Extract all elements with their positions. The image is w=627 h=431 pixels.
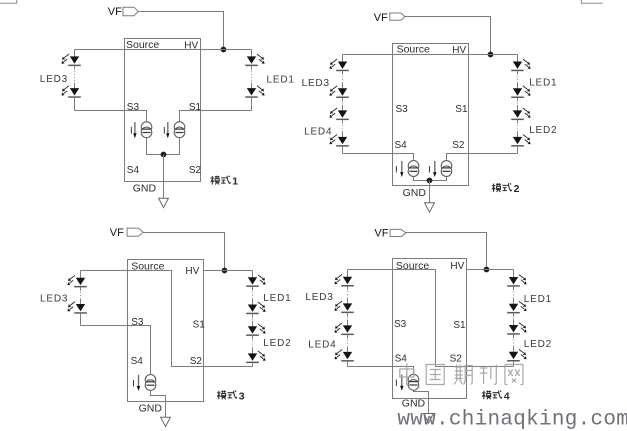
wire (dotted) [252,314,254,317]
wire VF to HV node (mode 4) [406,233,487,270]
pin label GND (mode 1) [133,182,157,194]
svg-text:S4: S4 [127,165,140,176]
wire (dotted) [513,287,515,290]
LED diode [329,59,348,71]
driver IC U3 body (mode 3) [128,260,204,402]
wire internal route to S2 (mode 3) [172,271,253,367]
node HV junction (mode 3) [222,268,228,274]
wire current sources to common node (mode 1) [147,138,180,155]
caption 模式1 [211,176,239,188]
wire HV rail (mode 2) [343,54,518,56]
svg-text:VF: VF [108,6,122,18]
watermark glyph 国 [426,365,444,385]
LED diode [507,275,526,287]
watermark URL www.chinaqking.com [397,409,627,431]
wire S3 to current source (mode 3) [81,326,151,375]
LED diode [246,324,265,336]
wire S1 to current source (mode 1) [180,111,252,122]
LED diode [329,108,348,120]
ground symbol (mode 4) [424,414,434,423]
svg-text:GND: GND [402,398,426,410]
watermark glyph 期 [454,365,472,385]
svg-text:LED1: LED1 [529,77,557,88]
LED diode [67,275,86,287]
caption 模式3 [217,391,245,403]
svg-text:Source: Source [126,39,159,51]
LED diode [507,323,526,335]
label LED3 (mode 4) [305,292,333,303]
driver IC U1 body (mode 1) [125,39,201,182]
label LED4 (mode 4) [308,340,336,351]
wire (dotted) [342,71,344,74]
pin label S1 (mode 3) [193,320,206,331]
svg-text:LED3: LED3 [40,293,68,304]
wire to ground (mode 2) [429,181,431,203]
LED diode [245,54,264,66]
svg-text:HV: HV [184,40,198,51]
svg-text:S1: S1 [455,104,468,115]
node HV junction (mode 4) [484,267,490,273]
wire (dotted) [347,335,349,338]
wire (dotted) [342,98,344,101]
wire [513,362,515,367]
svg-text:LED3: LED3 [40,74,68,85]
wire [517,147,519,154]
svg-text:VF: VF [374,227,388,239]
current source I2 (mode 2) [441,161,452,177]
label LED4 (mode 2) [304,126,332,137]
pin label S4 (mode 3) [131,356,144,367]
wire HV to LED string (mode 3) [204,270,253,272]
LED diode [334,274,353,286]
LED diode [334,301,353,313]
svg-text:I: I [132,378,135,389]
svg-text:LED2: LED2 [263,338,291,349]
wire [517,55,519,63]
svg-text:2: 2 [514,183,520,195]
svg-text:GND: GND [133,182,157,194]
svg-text:I: I [130,126,133,137]
current source I2 (mode 1) [174,122,185,138]
svg-text:HV: HV [185,266,199,277]
pin label Source (mode 4) [396,260,429,272]
current arrow I (mode 1 right) [163,122,170,138]
svg-text:3: 3 [239,391,245,403]
svg-text:S4: S4 [131,356,144,367]
LED diode [334,323,353,335]
net label VF (mode 4) [374,227,406,239]
LED diode [67,302,86,314]
svg-text:S1: S1 [189,102,202,113]
wire LED4 bottom to current source (mode 4) [348,367,414,375]
net label VF (mode 2) [374,12,405,24]
wire [251,98,253,111]
wire [252,271,254,279]
svg-text:S2: S2 [189,165,202,176]
caption 模式2 [492,183,520,195]
stray frame corner top-left [0,0,17,3]
watermark glyph 中 [400,364,414,386]
LED diode [246,302,265,314]
wire HV to LED string (mode 4) [467,269,514,271]
svg-text:S1: S1 [453,320,466,331]
label LED1 (mode 2) [529,77,557,88]
pin label S3 (mode 1) [127,102,140,113]
pin label GND (mode 3) [139,403,163,415]
svg-text:I: I [395,164,398,175]
current arrow I (mode 2 left) [395,161,403,177]
svg-text:S3: S3 [131,317,144,328]
label LED1 (mode 1) [267,75,295,86]
node HV junction (mode 1) [221,47,227,53]
pin label HV (mode 3) [185,266,199,277]
svg-text:S4: S4 [395,353,408,364]
svg-text:HV: HV [452,45,466,56]
ground symbol (mode 2) [425,203,435,212]
wire [74,98,76,111]
wire current source to ground (mode 4) [414,390,429,413]
LED diode [511,86,530,98]
ground symbol (mode 1) [159,198,169,207]
current source I1 (mode 2) [408,161,419,177]
svg-text:S3: S3 [127,102,140,113]
svg-text:S2: S2 [452,140,465,151]
LED diode [246,275,265,287]
wire S4 to current source (mode 2) [343,154,414,161]
wire VF to HV node (mode 2) [405,17,491,55]
current source I1 (mode 4) [408,374,419,390]
svg-text:LED2: LED2 [529,125,557,136]
pin label S2 (mode 2) [452,140,465,151]
pin label S2 (mode 4) [450,353,463,364]
wire [252,363,254,366]
pin label Source (mode 2) [397,44,430,56]
svg-text:1: 1 [232,176,238,188]
wire VF to HV node (mode 1) [138,12,223,50]
wire [80,271,82,279]
pin label HV (mode 4) [450,261,464,272]
net label VF (mode 3) [110,227,144,239]
pin label S3 (mode 3) [131,317,144,328]
LED diode [245,86,264,98]
pin label S3 (mode 4) [394,319,407,330]
LED diode [511,59,530,71]
node common GND (mode 1) [161,152,167,158]
svg-text:LED1: LED1 [263,293,291,304]
pin label HV (mode 1) [184,40,198,51]
wire (dotted) [252,336,254,339]
pin label GND (mode 2) [403,187,427,199]
svg-text:Source: Source [397,44,430,56]
svg-text:LED3: LED3 [305,292,333,303]
pin label GND (mode 4) [402,398,426,410]
svg-text:S2: S2 [190,356,203,367]
svg-text:I: I [428,164,431,175]
svg-text:S2: S2 [450,353,463,364]
pin label S1 (mode 2) [455,104,468,115]
wire [347,362,349,367]
pin label S3 (mode 2) [396,104,409,115]
svg-text:LED4: LED4 [304,126,332,137]
current source I1 (mode 3) [145,375,156,391]
svg-text:S4: S4 [395,140,408,151]
wire (dotted) [342,120,344,123]
svg-text:GND: GND [139,403,163,415]
svg-text:LED1: LED1 [524,294,552,305]
label LED1 (mode 4) [524,294,552,305]
LED diode [246,351,265,363]
driver IC U4 body (mode 4) [393,259,467,399]
wire LED3 top to internal route (mode 3) [81,270,172,272]
current arrow I (mode 1 left) [130,122,137,138]
svg-text:LED3: LED3 [302,78,330,89]
pin label Source (mode 1) [126,39,159,51]
LED diode [61,54,80,66]
svg-text:4: 4 [504,391,510,403]
svg-text:Source: Source [396,260,429,272]
wire (dotted) [513,313,515,316]
wire [342,147,344,154]
wire S3 to current source (mode 1) [75,111,147,122]
LED diode [61,86,80,98]
label LED2 (mode 4) [524,339,552,350]
pin label S4 (mode 4) [395,353,408,364]
wire VF to HV node (mode 3) [143,233,224,271]
svg-text:VF: VF [374,12,388,24]
wire (dotted) [252,287,254,290]
wire LED3 top to internal route (mode 4) [348,269,436,271]
wire [74,50,76,58]
wire [513,270,515,279]
wire (dotted) [517,120,519,123]
svg-text:S1: S1 [193,320,206,331]
pin label S1 (mode 1) [189,102,202,113]
wire (dotted) [251,66,253,69]
watermark glyph 刊 [480,365,497,385]
wire current sources to common node (mode 2) [414,177,447,181]
node common GND (mode 2) [427,178,433,184]
wire (dotted) [74,66,76,69]
watermark glyph 网 [505,365,523,385]
pin label Source (mode 3) [131,260,164,272]
label LED3 (mode 1) [40,74,68,85]
label LED2 (mode 2) [529,125,557,136]
LED diode [334,350,353,362]
driver IC U2 body (mode 2) [393,44,469,186]
ground symbol (mode 3) [161,417,171,426]
svg-text:I: I [163,126,166,137]
wire (dotted) [80,287,82,290]
current source I1 (mode 1) [141,122,152,138]
current arrow I (mode 4) [395,375,403,391]
pin label S2 (mode 1) [189,165,202,176]
wire current source to ground (mode 3) [151,390,166,417]
svg-text:HV: HV [450,261,464,272]
net label VF (mode 1) [108,6,138,18]
node HV junction (mode 2) [488,52,494,58]
pin label HV (mode 2) [452,45,466,56]
LED diode [511,135,530,147]
wire (dotted) [513,335,515,338]
label LED2 (mode 3) [263,338,291,349]
svg-text:S3: S3 [396,104,409,115]
label LED1 (mode 3) [263,293,291,304]
LED diode [511,108,530,120]
wire [251,50,253,58]
wire (dotted) [347,313,349,316]
svg-text:LED4: LED4 [308,340,336,351]
svg-text:S3: S3 [394,319,407,330]
pin label S2 (mode 3) [190,356,203,367]
current arrow I (mode 2 right) [428,161,436,177]
wire [80,314,82,326]
wire HV rail (mode 1) [75,49,252,51]
label LED3 (mode 2) [302,78,330,89]
label LED3 (mode 3) [40,293,68,304]
svg-text:VF: VF [110,227,124,239]
wire (dotted) [347,287,349,290]
svg-text:LED1: LED1 [267,75,295,86]
wire (dotted) [517,71,519,74]
LED diode [329,86,348,98]
pin label S4 (mode 1) [127,165,140,176]
current arrow I (mode 3) [132,375,140,391]
wire [347,270,349,278]
wire to ground (mode 1) [163,155,165,199]
LED diode [507,349,526,361]
pin label S4 (mode 2) [395,140,408,151]
wire S2 to current source (mode 2) [447,154,518,161]
wire [342,55,344,63]
wire internal route to S2 (mode 4) [436,270,514,367]
pin label S1 (mode 4) [453,320,466,331]
LED diode [507,301,526,313]
svg-text:www.chinaqking.com: www.chinaqking.com [397,409,627,431]
LED diode [329,135,348,147]
svg-text:GND: GND [403,187,427,199]
svg-text:LED2: LED2 [524,339,552,350]
stray frame corner top-middle [581,0,602,3]
wire (dotted) [517,98,519,101]
svg-text:Source: Source [131,260,164,272]
caption 模式4 [482,391,510,403]
svg-text:I: I [395,378,398,389]
